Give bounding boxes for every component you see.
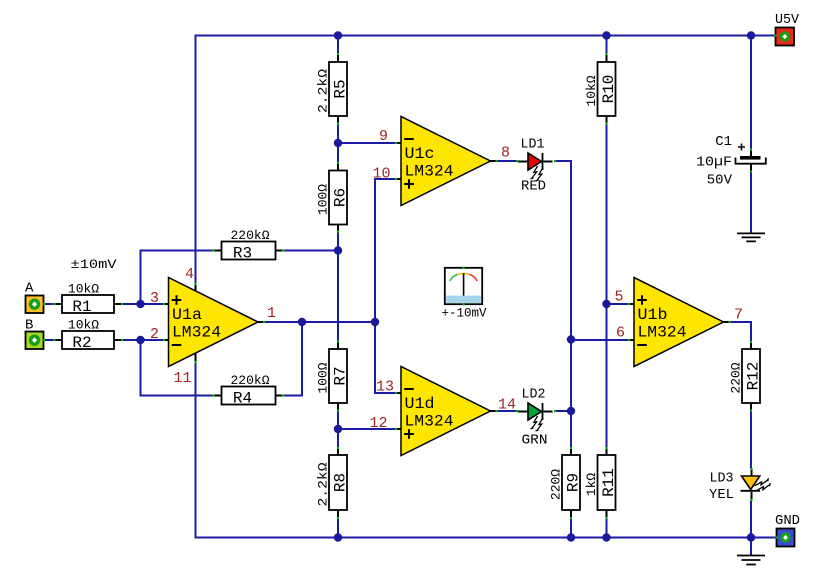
svg-text:1: 1: [267, 305, 276, 322]
wire R10 bottom to pin5 node: [606, 124, 608, 306]
svg-text:10kΩ: 10kΩ: [68, 282, 99, 297]
junction bottom rail / R11: [602, 533, 610, 541]
op-amp U1b (LM324): [634, 278, 724, 367]
input terminal B: [26, 332, 44, 350]
U1d pin13 input lead: [396, 392, 401, 394]
wire R4 to output node (feedback): [301, 322, 303, 397]
wire R6 bottom to R7 top (node R3): [337, 232, 339, 342]
wire R9 bottom to rail: [570, 518, 572, 538]
junction R5-R6 / pin9: [334, 139, 342, 147]
svg-text:U1d: U1d: [405, 395, 435, 413]
wire pin6 node to U1b pin6: [571, 339, 629, 341]
svg-text:R12: R12: [745, 362, 763, 391]
junction bottom rail / R8: [334, 533, 342, 541]
pin connection markers (green): [43, 34, 778, 538]
LED LD2 (GRN): [518, 403, 553, 431]
wire output node up to U1c pin10: [374, 179, 376, 323]
power terminal U5V: [776, 28, 795, 46]
op-amp U1a (LM324): [169, 278, 259, 367]
wire LD1 cathode to corner: [555, 160, 572, 162]
svg-text:R1: R1: [72, 298, 91, 316]
resistor R11: [598, 447, 616, 518]
resistor R4: [214, 387, 284, 405]
svg-text:LM324: LM324: [638, 324, 687, 342]
junction output / pin10-pin13 branch: [371, 318, 379, 326]
wire R3 right segment to node: [283, 250, 338, 252]
junction LED column / U1b pin6: [567, 335, 575, 343]
svg-text:GRN: GRN: [522, 433, 548, 449]
svg-text:LD3: LD3: [710, 471, 734, 487]
svg-text:7: 7: [734, 307, 743, 324]
svg-text:U1b: U1b: [638, 306, 668, 324]
wire pin5 node down to R11: [606, 303, 608, 448]
wire U5V rail to C1: [750, 36, 752, 150]
junction LD2 cathode: [567, 407, 575, 415]
wire R5 bottom to R6 top (node pin9): [337, 124, 339, 164]
U1b pin6 input lead: [629, 339, 634, 341]
wire LD2 node down to R9: [570, 411, 572, 448]
svg-text:LM324: LM324: [172, 324, 221, 342]
resistor R3: [214, 242, 284, 260]
svg-text:10µF: 10µF: [696, 155, 732, 171]
svg-text:13: 13: [376, 379, 394, 396]
wire C1 to ground symbol: [750, 172, 752, 234]
svg-text:A: A: [25, 281, 34, 297]
svg-text:R8: R8: [332, 473, 350, 492]
svg-text:R11: R11: [600, 468, 618, 497]
svg-text:5: 5: [614, 289, 623, 306]
svg-text:220kΩ: 220kΩ: [230, 373, 269, 388]
svg-text:4: 4: [185, 266, 194, 283]
svg-text:11: 11: [173, 370, 191, 387]
LED LD1 (RED): [518, 153, 553, 181]
wire U1c output to LD1: [496, 160, 518, 162]
wire corner down to R12: [750, 321, 752, 342]
svg-text:R6: R6: [332, 188, 350, 207]
U1a pin11 power stub: [195, 354, 197, 363]
svg-text:LM324: LM324: [405, 163, 454, 181]
wire U1a pin11 to bottom rail: [195, 362, 197, 539]
junction top rail / R5: [334, 31, 342, 39]
junction output / R4 feedback: [298, 318, 306, 326]
resistor R1: [54, 295, 122, 313]
svg-text:LM324: LM324: [405, 413, 454, 431]
wire ground rail to ground symbol stub: [750, 538, 752, 556]
svg-text:10: 10: [372, 166, 390, 183]
U1a pin2 input lead: [164, 339, 169, 341]
wire R1 to U1a pin3: [122, 303, 164, 305]
junction bottom rail / LD3 / GND: [747, 533, 755, 541]
resistor R9: [562, 447, 580, 518]
U1d pin12 input lead: [396, 428, 401, 430]
junction top rail / R10: [602, 31, 610, 39]
junction bottom rail / R9: [567, 533, 575, 541]
wire node R3 column to U1d pin12: [338, 428, 396, 430]
svg-text:100Ω: 100Ω: [316, 362, 331, 393]
ground symbol (bottom rail): [737, 556, 765, 565]
wire terminal A to R1: [44, 303, 55, 305]
svg-text:±10mV: ±10mV: [71, 257, 117, 272]
wire output node down to U1d pin13: [374, 321, 376, 393]
svg-text:220Ω: 220Ω: [729, 362, 744, 393]
svg-text:2.2kΩ: 2.2kΩ: [316, 69, 331, 113]
wire R2 to U1a pin2: [122, 339, 164, 341]
U1c pin10 input lead: [396, 178, 401, 180]
svg-text:R7: R7: [332, 366, 350, 385]
resistor R6: [329, 163, 347, 233]
junction R3 / R6-R7: [334, 246, 342, 254]
svg-text:R2: R2: [72, 334, 91, 352]
svg-text:+-10mV: +-10mV: [442, 306, 487, 321]
capacitor C1 (electrolytic 10uF 50V): [736, 150, 766, 172]
svg-text:YEL: YEL: [709, 487, 734, 503]
svg-text:14: 14: [498, 397, 516, 414]
svg-text:GND: GND: [775, 513, 800, 529]
wire terminal B to R2: [44, 339, 55, 341]
junction pin3 / R1 / R3: [136, 300, 144, 308]
wire R4 left segment: [140, 395, 214, 397]
junction top rail / C1+U5V: [747, 31, 755, 39]
svg-text:8: 8: [501, 145, 510, 162]
svg-text:2: 2: [150, 326, 159, 343]
resistor R8: [329, 447, 347, 518]
U1a pin4 power stub: [195, 284, 197, 292]
resistor R12: [742, 341, 760, 411]
wire R7 bottom to R8 top: [337, 411, 339, 448]
ground symbol (C1): [737, 233, 765, 241]
U1d output lead (pin14): [491, 410, 497, 412]
svg-text:LD2: LD2: [522, 387, 546, 403]
LED LD3 (YEL, vertical): [741, 469, 771, 500]
svg-text:100Ω: 100Ω: [316, 184, 331, 215]
svg-text:U1a: U1a: [172, 306, 202, 324]
U1b pin5 input lead: [629, 303, 634, 305]
junction pin2 / R2 / R4: [136, 336, 144, 344]
U1c pin9 input lead: [396, 142, 401, 144]
wire U1d output to LD2: [496, 410, 518, 412]
svg-text:50V: 50V: [707, 173, 733, 189]
wire top supply rail U5V: [195, 35, 776, 37]
svg-text:LD1: LD1: [521, 137, 545, 153]
wire bottom ground rail: [195, 537, 777, 539]
junction R7-R8 / pin12: [334, 425, 342, 433]
wire node to U1c pin9: [338, 142, 396, 144]
wire R3 node down to U1a pin3: [140, 250, 142, 305]
wire R12 to LD3: [750, 411, 752, 470]
svg-text:220Ω: 220Ω: [549, 469, 564, 500]
svg-text:R10: R10: [600, 75, 618, 104]
wire U1a pin2 node down to R4: [140, 340, 142, 397]
svg-text:220kΩ: 220kΩ: [230, 228, 269, 243]
wire R5 top feed: [337, 36, 339, 55]
meter indicator (+-10mV window): [445, 268, 482, 304]
wire LD1 corner down to pin6 node and LD2 node: [570, 160, 572, 412]
resistor R7: [329, 341, 347, 411]
svg-text:R4: R4: [233, 390, 252, 408]
wire R10 top feed: [606, 36, 608, 55]
wire to U1c pin10: [374, 178, 396, 180]
svg-text:R9: R9: [565, 473, 583, 492]
U1a pin3 input lead: [164, 303, 169, 305]
input terminal A: [26, 296, 44, 314]
wire to U1d pin13: [374, 392, 396, 394]
wire R4 right segment: [283, 395, 303, 397]
svg-text:3: 3: [150, 290, 159, 307]
U1c output lead (pin8): [491, 160, 497, 162]
U1b output lead (pin7): [724, 321, 730, 323]
svg-text:10kΩ: 10kΩ: [68, 318, 99, 333]
resistor R2: [54, 331, 122, 349]
svg-text:6: 6: [616, 325, 625, 342]
wire U1b output to R12 corner: [729, 321, 752, 323]
resistor R10: [598, 54, 616, 124]
svg-text:U5V: U5V: [775, 12, 800, 28]
wire pin5 node to U1b pin5: [607, 303, 630, 305]
power terminal GND: [777, 529, 795, 547]
svg-text:U1c: U1c: [405, 145, 435, 163]
svg-text:RED: RED: [521, 179, 546, 195]
wire R11 bottom to rail: [606, 518, 608, 538]
wire U1a output row: [264, 321, 376, 323]
svg-text:C1: C1: [715, 134, 732, 150]
svg-text:1kΩ: 1kΩ: [584, 473, 599, 497]
svg-text:12: 12: [369, 415, 387, 432]
resistor R5: [329, 54, 347, 124]
op-amp U1d (LM324): [401, 367, 491, 456]
wire R8 bottom to rail: [337, 518, 339, 538]
U1a output lead (pin1): [258, 321, 264, 323]
wire left V+ drop to U1a pin4: [195, 35, 197, 285]
polarity + mark (C1): [738, 144, 745, 151]
junction R10-R11 / U1b pin5: [602, 300, 610, 308]
svg-text:2.2kΩ: 2.2kΩ: [316, 462, 331, 506]
svg-text:B: B: [25, 318, 33, 334]
svg-text:R5: R5: [332, 79, 350, 98]
svg-text:10kΩ: 10kΩ: [584, 75, 599, 106]
op-amp U1c (LM324): [401, 117, 491, 206]
wire R3 left segment: [140, 250, 214, 252]
wire LD2 cathode to node: [555, 410, 572, 412]
svg-text:9: 9: [379, 128, 388, 145]
wire LD3 to ground rail: [750, 500, 752, 538]
svg-text:R3: R3: [233, 245, 252, 263]
